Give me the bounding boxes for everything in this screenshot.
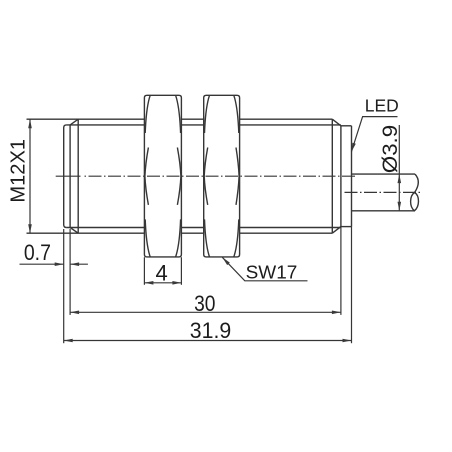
hex nut 2 outline (204, 95, 240, 257)
extension line cap boundary (0.7 / 30) (69, 229, 71, 315)
arrow M12X1 top (28, 119, 32, 128)
svg-text:Ø3.9: Ø3.9 (379, 125, 402, 173)
hex nut 2 left facet curves (205, 95, 210, 133)
hex nut 2 right facet curves (234, 95, 239, 133)
arrow SW17 leader (222, 257, 230, 265)
right chamfer bottom (332, 227, 341, 234)
thread minor diameter bottom line (66, 227, 144, 229)
cable break lens (411, 193, 419, 211)
LED ring (341, 125, 352, 127)
thread entry chamfer top (70, 119, 78, 125)
svg-text:0.7: 0.7 (24, 240, 51, 265)
arrow 31.9 right (343, 339, 352, 343)
dimension M12X1 line (29, 119, 31, 233)
arrow 0.7 right (70, 262, 79, 266)
extension line ring right (351, 227, 353, 344)
svg-text:4: 4 (155, 261, 167, 286)
thread major diameter top line + M12X1 extension (27, 118, 145, 120)
arrow 4 left (144, 281, 153, 285)
svg-text:31.9: 31.9 (190, 318, 232, 343)
svg-text:30: 30 (194, 291, 215, 316)
arrow 0.7 left (55, 262, 64, 266)
dimension 0.7 tails (20, 263, 64, 265)
svg-text:SW17: SW17 (246, 263, 298, 283)
thread entry chamfer bottom (70, 228, 78, 234)
cable top line (352, 173, 416, 175)
sensor body left cap face (64, 125, 67, 228)
cable break upper arc (415, 174, 419, 192)
main centerline (85, 175, 357, 177)
extension line left face (31.9 / 0.7) (63, 229, 65, 343)
SW17 leader line (222, 257, 307, 281)
hex nut 1 right facet curves (176, 95, 181, 133)
dimension 4 extension lines (143, 257, 145, 285)
arrow 31.9 left (64, 339, 73, 343)
extension line body right face (340, 227, 342, 315)
thread end vertical right (331, 119, 333, 233)
svg-text:M12X1: M12X1 (8, 139, 30, 203)
svg-text:LED: LED (365, 96, 399, 116)
hex nut 1 outline (144, 95, 181, 257)
thread major diameter bottom line + M12X1 extension (27, 232, 145, 234)
thread start vertical (77, 119, 79, 233)
cap boundary vertical (69, 125, 71, 228)
dimension 31.9 line (64, 340, 352, 342)
dimension 4 line (144, 282, 181, 284)
hex nut 1 left facet curves (145, 95, 150, 133)
LED leader line (351, 117, 397, 152)
thread minor diameter top line (66, 124, 144, 126)
arrow 30 right (332, 311, 341, 315)
arrow LED leader (351, 143, 355, 152)
dimension dia 3.9 line (398, 125, 400, 211)
arrow dia3.9 up (398, 174, 402, 183)
arrow 30 left (70, 311, 79, 315)
arrow M12X1 bottom (28, 224, 32, 233)
main centerline solid start (56, 175, 81, 177)
dimension 30 line (70, 311, 341, 313)
cable bottom line (352, 210, 415, 212)
arrow 4 right (172, 281, 181, 285)
cable centerline (345, 191, 421, 193)
arrow dia3.9 down (398, 202, 402, 211)
right chamfer top (332, 119, 341, 126)
